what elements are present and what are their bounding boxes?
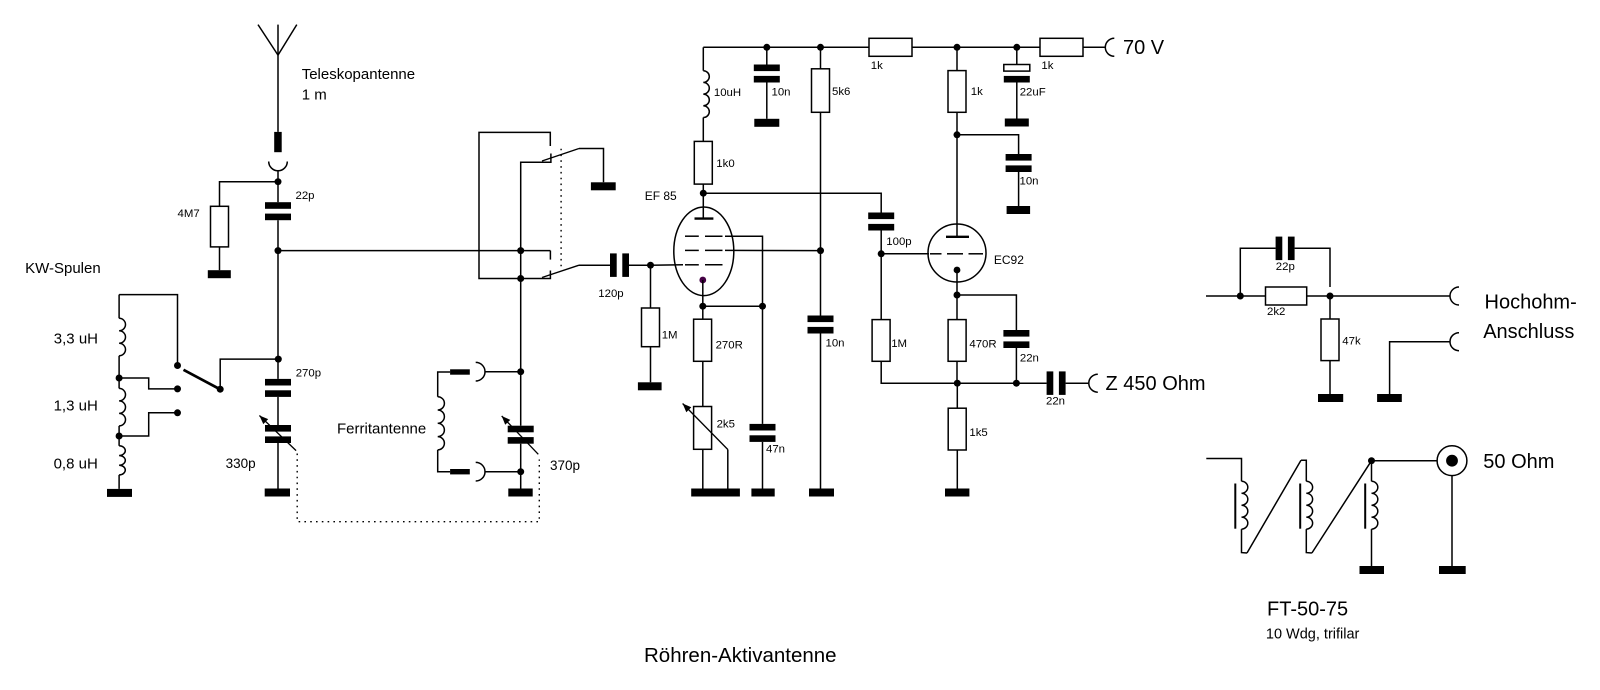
svg-text:330p: 330p [226, 456, 256, 471]
svg-text:1 m: 1 m [302, 87, 327, 104]
svg-text:Ferritantenne: Ferritantenne [337, 420, 426, 437]
svg-text:22p: 22p [1276, 261, 1295, 273]
svg-text:EC92: EC92 [994, 253, 1024, 267]
svg-text:120p: 120p [598, 288, 623, 300]
svg-text:5k6: 5k6 [832, 86, 850, 98]
svg-text:470R: 470R [969, 338, 996, 350]
svg-text:47k: 47k [1342, 336, 1361, 348]
svg-text:10n: 10n [1020, 176, 1039, 188]
svg-text:4M7: 4M7 [178, 208, 200, 220]
svg-text:100p: 100p [886, 236, 911, 248]
svg-text:1M: 1M [891, 338, 907, 350]
svg-text:10n: 10n [826, 338, 845, 350]
svg-text:1k0: 1k0 [716, 158, 734, 170]
svg-text:22p: 22p [296, 190, 315, 202]
svg-text:FT-50-75: FT-50-75 [1267, 599, 1348, 621]
svg-text:KW-Spulen: KW-Spulen [25, 260, 101, 277]
svg-text:270R: 270R [716, 339, 743, 351]
svg-text:10n: 10n [772, 87, 791, 99]
svg-text:10 Wdg, trifilar: 10 Wdg, trifilar [1266, 627, 1360, 643]
svg-text:Anschluss: Anschluss [1483, 321, 1574, 343]
svg-text:EF 85: EF 85 [645, 189, 677, 203]
svg-text:22uF: 22uF [1020, 87, 1046, 99]
svg-text:50 Ohm: 50 Ohm [1483, 451, 1554, 473]
svg-text:Hochohm-: Hochohm- [1485, 292, 1577, 314]
svg-text:1k: 1k [971, 86, 983, 98]
svg-text:22n: 22n [1020, 352, 1039, 364]
svg-text:1k: 1k [1041, 60, 1053, 72]
svg-text:0,8 uH: 0,8 uH [54, 455, 98, 472]
svg-text:1k: 1k [871, 60, 883, 72]
svg-text:Röhren-Aktivantenne: Röhren-Aktivantenne [644, 644, 837, 667]
svg-text:370p: 370p [550, 458, 580, 473]
svg-text:270p: 270p [296, 368, 321, 380]
svg-text:Z 450 Ohm: Z 450 Ohm [1106, 373, 1206, 395]
svg-text:1k5: 1k5 [969, 427, 987, 439]
svg-text:22n: 22n [1046, 396, 1065, 408]
svg-text:47n: 47n [766, 443, 785, 455]
svg-text:1,3 uH: 1,3 uH [54, 398, 98, 415]
svg-text:70 V: 70 V [1123, 37, 1165, 59]
svg-text:3,3 uH: 3,3 uH [54, 331, 98, 348]
svg-text:2k5: 2k5 [717, 418, 735, 430]
svg-text:Teleskopantenne: Teleskopantenne [302, 66, 415, 83]
svg-text:10uH: 10uH [714, 87, 741, 99]
svg-text:2k2: 2k2 [1267, 306, 1285, 318]
svg-text:1M: 1M [662, 330, 678, 342]
